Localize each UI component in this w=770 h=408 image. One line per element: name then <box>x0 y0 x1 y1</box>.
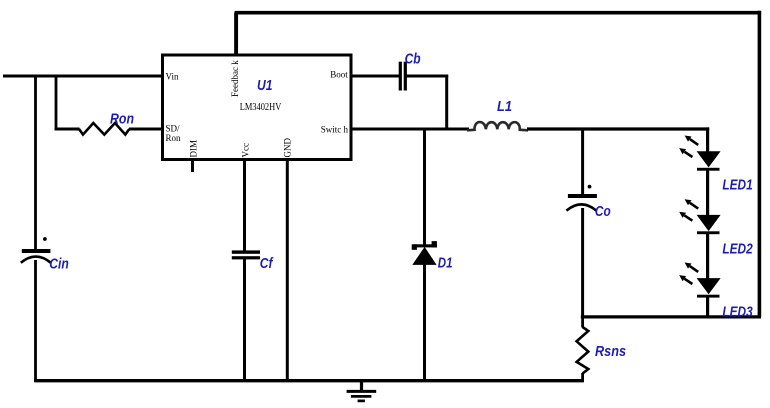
wire: Boot pin to Cb <box>351 75 400 78</box>
wire: Rsns bottom lead to ground rail <box>581 373 584 382</box>
svg-text:U1: U1 <box>257 78 273 94</box>
svg-text:Cin: Cin <box>49 257 69 273</box>
svg-text:LED3: LED3 <box>722 305 752 321</box>
wire: Cin branch down from Vin rail <box>34 76 37 251</box>
wire: Switch pin to L1 <box>351 128 469 131</box>
wire: Cf bottom lead to ground rail <box>243 258 246 382</box>
svg-text:L1: L1 <box>497 99 512 115</box>
svg-text:Co: Co <box>595 204 611 220</box>
svg-text:DIM: DIM <box>189 140 199 158</box>
resistor Rsns <box>577 327 589 374</box>
wire: Cb branch down to switch rail <box>445 75 448 131</box>
svg-text:Cb: Cb <box>405 52 421 68</box>
svg-text:Switc h: Switc h <box>321 124 349 134</box>
svg-text:GND: GND <box>282 138 292 158</box>
capacitor Co (polarized) <box>566 185 597 211</box>
wire: Co branch down from switch rail <box>581 129 584 196</box>
wire: bottom ground rail <box>34 379 584 382</box>
wire: Cin bottom lead down to ground rail <box>34 260 37 382</box>
wire: Ron left lead <box>55 128 80 131</box>
wire: D1 anode down to ground rail <box>423 264 426 382</box>
wire: LED3 to LED bottom rail <box>706 296 709 319</box>
wire: feedback pin stub up from U1 top <box>234 13 238 57</box>
wire: L1 to LED string corner <box>527 127 709 130</box>
wire: DIM pin stub <box>191 160 194 172</box>
capacitor Cf <box>232 250 260 259</box>
wire: Vcc pin down to Cf <box>243 159 246 252</box>
svg-text:LM3402HV: LM3402HV <box>240 102 282 113</box>
wire: D1 branch down from switch rail <box>423 129 426 245</box>
svg-text:Cf: Cf <box>260 256 274 272</box>
wire: Cb right lead <box>407 75 449 78</box>
wire: top feedback rail <box>235 11 762 15</box>
svg-text:Vcc: Vcc <box>241 143 251 158</box>
wire: LED string drop from switch rail corner <box>706 127 709 152</box>
LED LED1 <box>679 136 720 171</box>
svg-text:LED1: LED1 <box>722 178 752 194</box>
wire: Co bottom lead to LED bottom rail <box>581 208 584 319</box>
LED LED2 <box>679 199 720 234</box>
svg-text:Rsns: Rsns <box>595 344 626 360</box>
wire: LED1 to LED2 <box>706 169 709 216</box>
wire: Vin input rail <box>3 75 163 78</box>
wire: Rsns top lead <box>581 316 584 328</box>
wire: Ron right lead to SD/Ron pin <box>129 128 163 131</box>
svg-text:D1: D1 <box>438 256 453 272</box>
svg-text:Boot: Boot <box>330 70 348 80</box>
LED LED3 <box>679 263 720 298</box>
svg-text:Feedbac k: Feedbac k <box>230 60 240 97</box>
svg-text:LED2: LED2 <box>722 242 752 258</box>
inductor L1 <box>467 122 528 130</box>
wire: GND pin down to ground rail <box>286 159 289 382</box>
capacitor Cb <box>399 62 407 91</box>
wire: right feedback rail down to LED bottom rail <box>758 11 762 317</box>
svg-text:Ron: Ron <box>110 111 134 127</box>
wire: LED bottom rail <box>581 315 761 318</box>
svg-text:Ron: Ron <box>166 133 182 143</box>
diode D1 (Schottky) <box>412 241 437 265</box>
svg-text:SD/: SD/ <box>166 124 181 134</box>
capacitor Cin (polarized) <box>21 237 51 263</box>
svg-text:Vin: Vin <box>166 71 179 81</box>
wire: Ron branch down from Vin rail <box>55 76 58 130</box>
wire: LED2 to LED3 <box>706 233 709 279</box>
op-amp U1 IC body LM3402HV <box>163 55 352 160</box>
ground <box>347 380 377 401</box>
resistor Ron <box>79 123 129 135</box>
